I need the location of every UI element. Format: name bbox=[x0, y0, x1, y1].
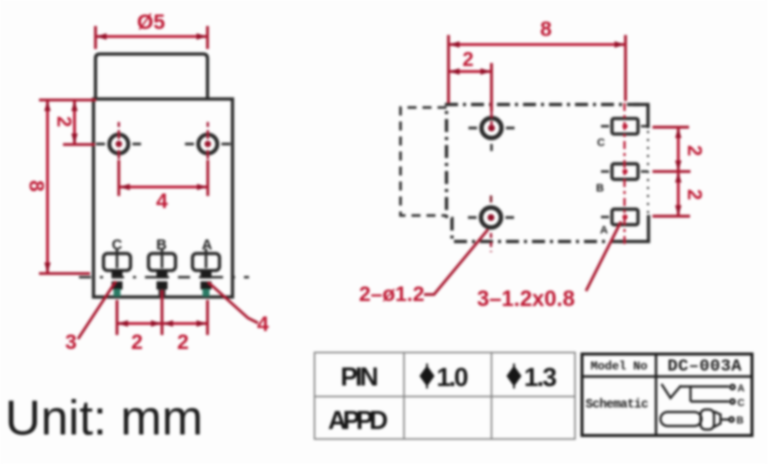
top view body right edge dotted bbox=[647, 131, 649, 213]
schematic switch contact bbox=[662, 384, 735, 404]
solder pin C (top view) bbox=[601, 119, 648, 135]
dimension 4 (between holes) bbox=[119, 160, 208, 213]
svg-text:C: C bbox=[597, 137, 605, 149]
svg-text:8: 8 bbox=[25, 180, 48, 192]
svg-text:Model No: Model No bbox=[591, 360, 648, 374]
title block frame bbox=[582, 354, 752, 436]
dimension 2 (top left) bbox=[53, 100, 97, 145]
svg-text:Unit: mm: Unit: mm bbox=[5, 391, 203, 446]
terminal cup C bbox=[104, 249, 131, 271]
svg-text:1.3: 1.3 bbox=[524, 362, 557, 392]
top view body corner bottom right bbox=[619, 215, 649, 242]
dimension 8 (top view) bbox=[449, 18, 626, 103]
leader 3 bbox=[65, 281, 116, 354]
svg-text:1.0: 1.0 bbox=[437, 362, 469, 392]
svg-text:2: 2 bbox=[683, 145, 705, 156]
svg-text:4: 4 bbox=[257, 313, 269, 336]
svg-text:3: 3 bbox=[65, 331, 77, 354]
svg-text:4: 4 bbox=[156, 190, 168, 213]
svg-text:B: B bbox=[736, 416, 743, 427]
dimension 2 (top view left) bbox=[450, 49, 492, 111]
pin A bbox=[201, 271, 212, 297]
solder pin A (top view) bbox=[601, 209, 638, 225]
dimension 2 2 (pin pitch top view) bbox=[653, 127, 706, 216]
dimension 2 2 (pin pitch) bbox=[117, 290, 208, 354]
top view body outline bbox=[447, 105, 641, 242]
spec table bbox=[315, 353, 576, 440]
callout 2-Ø1.2 bbox=[359, 230, 488, 307]
svg-text:B: B bbox=[596, 183, 604, 195]
pin C bbox=[112, 271, 123, 297]
leader 4 bbox=[208, 282, 269, 336]
svg-text:APPD: APPD bbox=[328, 405, 388, 435]
top view body corner top right bbox=[633, 105, 648, 129]
svg-text:2: 2 bbox=[177, 331, 189, 354]
solder pin B (top view) bbox=[601, 164, 648, 180]
terminal cup B bbox=[149, 249, 176, 271]
svg-text:A: A bbox=[600, 225, 608, 237]
top view button silhouette dashed bbox=[401, 108, 447, 216]
svg-text:PIN: PIN bbox=[341, 362, 379, 392]
schematic centre pin bbox=[661, 410, 734, 430]
svg-text:A: A bbox=[737, 384, 744, 395]
svg-text:Schematic: Schematic bbox=[586, 398, 649, 412]
callout 3-1.2x0.8 bbox=[477, 222, 621, 312]
svg-text:2: 2 bbox=[683, 189, 705, 200]
svg-text:2: 2 bbox=[462, 49, 473, 71]
svg-text:Ø5: Ø5 bbox=[137, 11, 165, 34]
svg-text:2: 2 bbox=[53, 116, 75, 127]
seating plane dash line bbox=[79, 276, 249, 278]
pin centre line (top view) bbox=[623, 103, 625, 246]
svg-text:C: C bbox=[737, 398, 744, 409]
svg-text:3–1.2x0.8: 3–1.2x0.8 bbox=[477, 286, 575, 311]
mounting hole right bbox=[185, 122, 231, 165]
dimension Ø5 bbox=[96, 11, 208, 49]
svg-text:2–ø1.2: 2–ø1.2 bbox=[359, 283, 424, 306]
mounting hole left bbox=[96, 122, 141, 165]
svg-text:2: 2 bbox=[131, 331, 143, 354]
dimension 8 (left) bbox=[25, 100, 91, 274]
pin B bbox=[157, 271, 168, 298]
front view button knob bbox=[96, 54, 208, 99]
svg-text:DC–003A: DC–003A bbox=[668, 358, 743, 377]
top view hole lower bbox=[468, 196, 514, 253]
top view hole upper bbox=[469, 106, 515, 151]
table diamond 1.3 bbox=[507, 366, 522, 387]
svg-text:8: 8 bbox=[540, 18, 552, 41]
terminal cup A bbox=[193, 249, 220, 271]
front view body bbox=[94, 99, 233, 297]
table diamond 1.0 bbox=[420, 366, 435, 387]
